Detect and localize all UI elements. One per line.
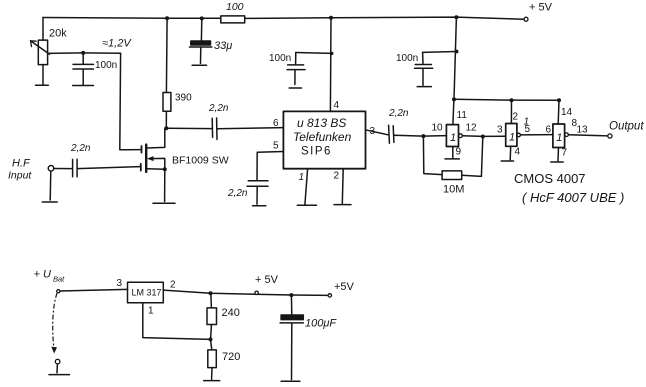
svg-text:100: 100	[226, 1, 244, 13]
svg-text:11: 11	[457, 110, 468, 121]
svg-text:20k: 20k	[49, 28, 67, 40]
svg-text:9: 9	[456, 147, 462, 158]
svg-text:1: 1	[509, 132, 515, 144]
svg-text:5: 5	[525, 124, 531, 135]
svg-text:1: 1	[450, 132, 456, 144]
svg-text:6: 6	[546, 125, 552, 136]
svg-text:1: 1	[556, 132, 562, 144]
svg-text:+ U: + U	[34, 269, 51, 281]
svg-text:SIP6: SIP6	[301, 146, 332, 158]
svg-text:1: 1	[299, 172, 305, 183]
svg-text:H.F: H.F	[12, 158, 31, 170]
svg-text:Output: Output	[609, 121, 644, 133]
svg-text:Telefunken: Telefunken	[293, 130, 352, 144]
svg-text:u 813 BS: u 813 BS	[297, 116, 346, 130]
svg-text:Input: Input	[8, 170, 32, 182]
svg-text:3: 3	[497, 125, 503, 136]
svg-text:3: 3	[117, 278, 123, 289]
svg-text:3: 3	[370, 126, 376, 137]
svg-text:2,2n: 2,2n	[70, 143, 91, 154]
svg-text:4: 4	[515, 147, 521, 158]
svg-text:Bat: Bat	[53, 275, 65, 284]
svg-text:10: 10	[432, 123, 444, 134]
svg-text:2: 2	[513, 112, 519, 123]
svg-text:2: 2	[170, 280, 176, 291]
svg-text:390: 390	[175, 93, 192, 104]
svg-text:2: 2	[334, 171, 340, 182]
svg-text:100n: 100n	[396, 53, 418, 64]
svg-text:33μ: 33μ	[214, 40, 232, 52]
svg-text:100n: 100n	[95, 60, 117, 71]
svg-text:LM 317: LM 317	[132, 288, 162, 298]
svg-text:10M: 10M	[443, 184, 464, 196]
svg-text:CMOS 4007: CMOS 4007	[514, 171, 586, 186]
svg-text:+ 5V: + 5V	[255, 274, 279, 286]
svg-text:2,2n: 2,2n	[227, 188, 248, 199]
svg-text:≈1,2V: ≈1,2V	[102, 38, 132, 50]
svg-text:BF1009 SW: BF1009 SW	[172, 155, 229, 167]
svg-text:6: 6	[273, 118, 279, 129]
svg-text:12: 12	[466, 123, 478, 134]
svg-text:1: 1	[148, 306, 154, 317]
svg-text:4: 4	[334, 100, 340, 111]
svg-text:+5V: +5V	[334, 281, 355, 293]
svg-text:7: 7	[562, 148, 568, 159]
svg-text:5: 5	[273, 141, 279, 152]
svg-text:240: 240	[222, 307, 240, 319]
svg-text:+ 5V: + 5V	[529, 2, 553, 14]
svg-text:2,2n: 2,2n	[208, 103, 229, 114]
svg-text:100μF: 100μF	[305, 318, 337, 330]
svg-text:100n: 100n	[269, 53, 291, 64]
svg-text:2,2n: 2,2n	[388, 108, 409, 119]
svg-text:13: 13	[577, 125, 589, 136]
svg-text:14: 14	[561, 107, 573, 118]
svg-text:( HcF 4007 UBE ): ( HcF 4007 UBE )	[522, 190, 624, 205]
svg-text:720: 720	[222, 351, 240, 363]
